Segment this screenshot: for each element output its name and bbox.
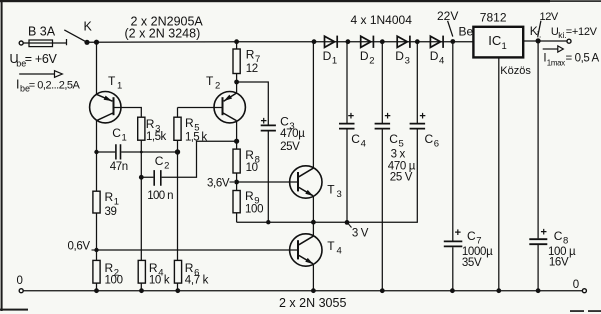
svg-text:7: 7: [476, 235, 481, 246]
svg-text:(2 x 2N 3248): (2 x 2N 3248): [125, 27, 201, 41]
svg-text:1,5k: 1,5k: [146, 131, 166, 143]
svg-text:+: +: [419, 110, 425, 122]
svg-text:2: 2: [164, 160, 169, 171]
svg-text:+: +: [348, 110, 354, 122]
svg-text:25V: 25V: [280, 141, 300, 153]
svg-text:1max: 1max: [547, 58, 565, 67]
svg-text:16V: 16V: [549, 256, 569, 268]
svg-text:C: C: [112, 126, 121, 140]
svg-text:C: C: [554, 229, 563, 243]
svg-text:IC: IC: [488, 33, 501, 48]
svg-text:6: 6: [434, 138, 439, 149]
svg-text:4,7 k: 4,7 k: [185, 275, 209, 287]
svg-text:100: 100: [245, 204, 263, 216]
svg-text:ki.: ki.: [558, 30, 567, 40]
svg-text:C: C: [425, 132, 434, 146]
svg-text:R: R: [185, 261, 194, 275]
svg-text:R: R: [149, 261, 158, 275]
svg-text:T: T: [327, 183, 335, 197]
svg-text:3 x: 3 x: [391, 148, 406, 160]
svg-text:+: +: [455, 227, 461, 239]
svg-text:R: R: [246, 47, 255, 61]
svg-text:B 3A: B 3A: [28, 25, 56, 39]
svg-text:C: C: [389, 132, 398, 146]
svg-text:7812: 7812: [480, 10, 507, 24]
svg-text:22V: 22V: [437, 9, 458, 23]
svg-text:R: R: [146, 117, 155, 131]
svg-text:I: I: [16, 77, 19, 91]
svg-text:=+12V: =+12V: [566, 26, 598, 38]
svg-text:T: T: [327, 239, 335, 253]
svg-text:Közös: Közös: [500, 65, 531, 77]
svg-text:D: D: [395, 49, 404, 63]
svg-text:35V: 35V: [462, 257, 482, 269]
svg-text:= 0,2...2,5A: = 0,2...2,5A: [29, 79, 81, 91]
svg-text:C: C: [280, 114, 289, 128]
svg-text:1: 1: [117, 80, 122, 91]
svg-text:4: 4: [337, 245, 342, 256]
svg-text:C: C: [467, 229, 476, 243]
svg-text:4: 4: [439, 55, 444, 66]
svg-text:0,6V: 0,6V: [68, 241, 91, 253]
svg-text:1,5 k: 1,5 k: [185, 132, 207, 144]
svg-text:+: +: [384, 110, 390, 122]
svg-text:47n: 47n: [110, 161, 128, 173]
svg-text:3: 3: [337, 189, 342, 200]
svg-text:+: +: [541, 227, 547, 239]
svg-text:D: D: [430, 49, 439, 63]
svg-text:1: 1: [122, 133, 127, 144]
svg-text:25 V: 25 V: [390, 172, 413, 184]
svg-text:R: R: [245, 189, 254, 203]
svg-text:R: R: [105, 261, 114, 275]
svg-text:be: be: [20, 84, 30, 94]
svg-text:10 k: 10 k: [149, 275, 170, 287]
svg-text:= 0,5 A: = 0,5 A: [566, 53, 600, 65]
svg-text:D: D: [323, 49, 332, 63]
svg-text:0: 0: [17, 275, 23, 287]
svg-text:R: R: [185, 116, 194, 130]
svg-text:3: 3: [405, 55, 410, 66]
svg-text:R: R: [105, 190, 114, 204]
svg-text:100: 100: [105, 275, 123, 287]
svg-text:470µ: 470µ: [280, 128, 305, 140]
svg-text:2 x 2N 3055: 2 x 2N 3055: [279, 296, 346, 310]
svg-text:12V: 12V: [540, 11, 559, 23]
svg-text:8: 8: [563, 235, 568, 246]
svg-text:100 n: 100 n: [147, 190, 173, 202]
svg-text:3 V: 3 V: [352, 227, 369, 239]
svg-text:1: 1: [332, 55, 337, 66]
svg-text:C: C: [351, 132, 360, 146]
svg-text:10: 10: [246, 162, 258, 174]
svg-text:3,6V: 3,6V: [207, 177, 230, 189]
svg-text:be: be: [16, 59, 26, 69]
svg-text:12: 12: [246, 63, 258, 75]
svg-text:2: 2: [369, 55, 374, 66]
svg-text:1: 1: [502, 41, 507, 52]
svg-text:4: 4: [361, 138, 366, 149]
svg-text:i.: i.: [537, 30, 542, 40]
svg-text:T: T: [206, 74, 214, 88]
svg-text:Be: Be: [459, 25, 474, 39]
svg-text:2: 2: [215, 80, 220, 91]
svg-text:C: C: [155, 154, 164, 168]
svg-text:39: 39: [105, 206, 117, 218]
svg-text:+: +: [261, 116, 267, 128]
svg-text:0: 0: [573, 279, 579, 291]
svg-text:K: K: [84, 20, 93, 34]
svg-text:4 x 1N4004: 4 x 1N4004: [351, 13, 413, 27]
svg-text:R: R: [245, 148, 254, 162]
svg-text:= +6V: = +6V: [25, 52, 58, 66]
svg-text:D: D: [360, 49, 369, 63]
svg-text:T: T: [108, 74, 116, 88]
